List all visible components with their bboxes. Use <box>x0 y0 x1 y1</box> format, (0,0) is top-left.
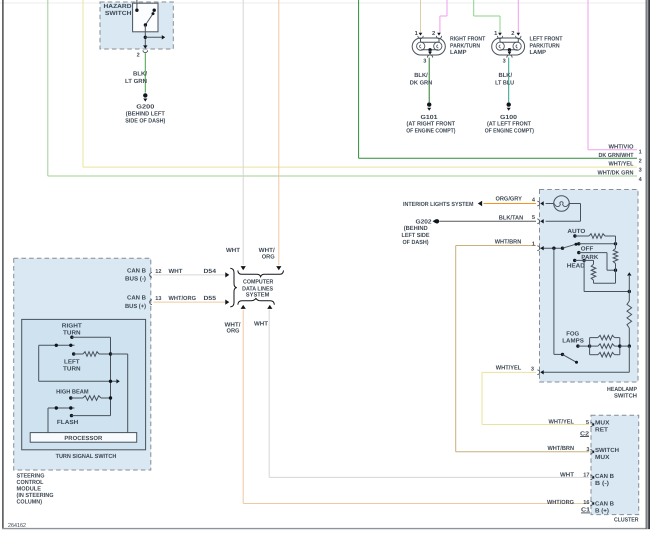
svg-text:WHT/YEL: WHT/YEL <box>609 161 634 168</box>
svg-text:BUS (+): BUS (+) <box>125 303 146 310</box>
svg-text:2: 2 <box>432 30 435 37</box>
svg-text:OF ENGINE COMPT): OF ENGINE COMPT) <box>406 127 455 134</box>
svg-text:WHT/BRN: WHT/BRN <box>548 445 575 452</box>
svg-text:17: 17 <box>583 473 589 479</box>
svg-text:G101: G101 <box>421 114 439 121</box>
svg-text:INTERIOR LIGHTS SYSTEM: INTERIOR LIGHTS SYSTEM <box>403 201 474 208</box>
svg-text:G200: G200 <box>136 104 155 111</box>
svg-text:MUX: MUX <box>595 419 610 426</box>
svg-text:PARK/TURN: PARK/TURN <box>450 42 480 49</box>
svg-text:(BEHIND LEFT: (BEHIND LEFT <box>126 111 165 118</box>
svg-text:BLK/: BLK/ <box>499 72 513 79</box>
svg-text:3: 3 <box>586 447 589 453</box>
svg-text:WHT/ORG: WHT/ORG <box>547 499 574 506</box>
svg-text:HIGH BEAM: HIGH BEAM <box>56 389 89 396</box>
svg-text:TURN: TURN <box>63 366 81 373</box>
svg-text:5: 5 <box>532 215 535 221</box>
svg-text:WHT/YEL: WHT/YEL <box>496 365 522 372</box>
svg-text:WHT: WHT <box>560 471 574 478</box>
svg-text:WHT/DK GRN: WHT/DK GRN <box>598 170 634 177</box>
svg-text:STEERING: STEERING <box>17 473 45 480</box>
svg-text:AUTO: AUTO <box>567 228 585 235</box>
svg-text:TURN: TURN <box>63 329 81 336</box>
svg-text:LAMPS: LAMPS <box>562 338 584 345</box>
svg-text:1: 1 <box>532 241 535 247</box>
svg-text:RIGHT FRONT: RIGHT FRONT <box>450 36 486 43</box>
svg-text:2: 2 <box>137 53 140 59</box>
svg-text:WHT/ORG: WHT/ORG <box>169 295 197 302</box>
svg-text:FLASH: FLASH <box>57 419 79 426</box>
svg-text:G100: G100 <box>500 114 518 121</box>
svg-text:CAN B: CAN B <box>127 267 147 274</box>
svg-text:WHT/: WHT/ <box>259 247 275 254</box>
svg-text:OFF: OFF <box>581 246 594 253</box>
svg-text:PARK: PARK <box>581 254 599 261</box>
svg-text:B (+): B (+) <box>595 507 609 514</box>
svg-text:LAMP: LAMP <box>450 49 467 56</box>
svg-text:WHT/VIO: WHT/VIO <box>609 143 634 150</box>
svg-text:DATA LINES: DATA LINES <box>242 285 273 292</box>
svg-text:BUS (-): BUS (-) <box>125 276 146 283</box>
svg-text:WHT: WHT <box>169 268 183 275</box>
svg-text:(AT RIGHT FRONT: (AT RIGHT FRONT <box>407 121 456 128</box>
svg-text:LEFT: LEFT <box>64 359 80 366</box>
svg-text:CAN B: CAN B <box>595 473 615 480</box>
svg-text:RET: RET <box>595 426 608 433</box>
svg-text:PROCESSOR: PROCESSOR <box>64 435 103 442</box>
svg-text:RIGHT: RIGHT <box>62 323 82 330</box>
svg-text:16: 16 <box>583 500 589 506</box>
svg-text:BLK/TAN: BLK/TAN <box>499 214 524 221</box>
svg-text:SWITCH: SWITCH <box>105 10 132 17</box>
svg-text:DK GRN/WHT: DK GRN/WHT <box>599 152 634 159</box>
svg-text:TURN SIGNAL SWITCH: TURN SIGNAL SWITCH <box>56 453 117 460</box>
svg-text:264162: 264162 <box>8 522 26 529</box>
svg-text:ORG: ORG <box>262 253 275 260</box>
svg-text:2: 2 <box>511 30 514 37</box>
svg-text:13: 13 <box>155 296 161 302</box>
svg-text:SWITCH: SWITCH <box>614 393 637 400</box>
svg-text:5: 5 <box>586 420 589 426</box>
svg-text:SYSTEM: SYSTEM <box>246 292 270 299</box>
svg-text:1: 1 <box>639 149 642 155</box>
svg-text:WHT/YEL: WHT/YEL <box>549 419 575 426</box>
svg-text:ORG: ORG <box>227 328 240 335</box>
svg-text:SWITCH: SWITCH <box>595 447 619 454</box>
svg-text:WHT/BRN: WHT/BRN <box>495 239 522 246</box>
svg-text:COMPUTER: COMPUTER <box>243 278 274 285</box>
svg-text:CAN B: CAN B <box>127 295 147 302</box>
svg-text:HEAD: HEAD <box>567 263 586 270</box>
svg-text:WHT: WHT <box>254 321 268 328</box>
svg-text:HEADLAMP: HEADLAMP <box>607 386 637 393</box>
svg-text:3: 3 <box>639 167 642 173</box>
svg-text:(BEHIND: (BEHIND <box>404 225 429 232</box>
svg-text:D55: D55 <box>204 295 217 302</box>
svg-text:SIDE OF DASH): SIDE OF DASH) <box>125 118 165 125</box>
svg-text:MODULE: MODULE <box>17 486 42 493</box>
svg-text:CONTROL: CONTROL <box>17 479 44 486</box>
svg-text:COLUMN): COLUMN) <box>17 499 43 506</box>
svg-text:LEFT FRONT: LEFT FRONT <box>530 36 563 43</box>
svg-text:OF ENGINE COMPT): OF ENGINE COMPT) <box>485 127 534 134</box>
svg-text:FOG: FOG <box>566 331 579 338</box>
svg-text:12: 12 <box>155 269 161 275</box>
svg-text:PARK/TURN: PARK/TURN <box>530 42 560 49</box>
svg-text:LEFT SIDE: LEFT SIDE <box>402 232 430 239</box>
svg-text:G202: G202 <box>416 218 433 225</box>
svg-text:DK GRN: DK GRN <box>410 79 433 86</box>
svg-text:3: 3 <box>531 366 534 372</box>
svg-text:B (-): B (-) <box>595 480 609 487</box>
svg-text:MUX: MUX <box>595 454 610 461</box>
svg-text:WHT: WHT <box>226 247 240 254</box>
svg-text:BLK/: BLK/ <box>414 72 428 79</box>
svg-text:3: 3 <box>503 59 506 65</box>
svg-text:OF DASH): OF DASH) <box>403 239 429 246</box>
svg-text:LT GRN: LT GRN <box>125 78 147 85</box>
svg-text:LT BLU: LT BLU <box>495 79 514 86</box>
svg-text:LAMP: LAMP <box>530 49 547 56</box>
svg-text:BLK/: BLK/ <box>133 71 147 78</box>
svg-text:WHT/: WHT/ <box>225 321 241 328</box>
svg-text:ORG/GRY: ORG/GRY <box>495 195 522 202</box>
svg-text:3: 3 <box>423 59 426 65</box>
svg-text:D54: D54 <box>204 268 217 275</box>
svg-text:(IN STEERING: (IN STEERING <box>17 492 54 499</box>
svg-text:2: 2 <box>639 158 642 164</box>
svg-text:CLUSTER: CLUSTER <box>614 517 639 524</box>
svg-text:HAZARD: HAZARD <box>104 3 133 10</box>
svg-text:(AT LEFT FRONT: (AT LEFT FRONT <box>487 121 531 128</box>
svg-text:CAN B: CAN B <box>595 500 615 507</box>
